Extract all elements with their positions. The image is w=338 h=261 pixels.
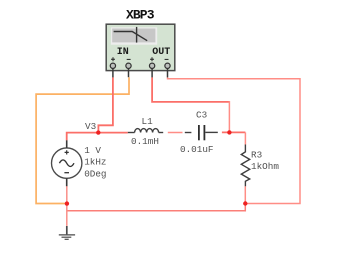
junction bottom right node <box>243 201 247 205</box>
wire orange IN- to ground node <box>36 77 129 203</box>
terminal OUT- <box>165 63 170 68</box>
polarity mark - IN <box>127 58 131 60</box>
svg-text:XBP3: XBP3 <box>126 8 155 23</box>
svg-text:0.1mH: 0.1mH <box>131 136 159 147</box>
polarity mark - OUT <box>165 58 169 60</box>
svg-text:1kOhm: 1kOhm <box>251 161 279 172</box>
capacitor C3 plates <box>199 125 218 140</box>
source V3 bottom pin <box>66 178 68 186</box>
resistor R3 <box>241 145 249 187</box>
inductor L1 <box>128 129 192 133</box>
pin stub IN+ <box>112 69 114 78</box>
XBP3 screen curve <box>114 32 148 41</box>
bode plotter XBP3 body <box>106 24 175 70</box>
XBP3 screen <box>112 29 155 43</box>
XBP3 screen bezel <box>111 27 157 44</box>
pin stub IN- <box>128 69 130 78</box>
wire node V3 horizontal <box>67 133 128 141</box>
terminal OUT+ <box>149 63 154 68</box>
XBP3 screen cursor <box>136 27 138 43</box>
wire between L1 and C3 salmon dash <box>168 132 183 134</box>
svg-text:R3: R3 <box>251 150 262 161</box>
junction node C3-R3 <box>227 130 231 134</box>
wire red IN+ to node V3 <box>98 77 113 132</box>
wire red OUT+ horizontal <box>152 77 229 102</box>
source V3 circle <box>51 148 81 178</box>
polarity mark + OUT <box>150 57 154 61</box>
wire C3 to R3 corner <box>222 131 246 133</box>
svg-text:OUT: OUT <box>152 47 170 58</box>
wire down to R3 top <box>244 132 246 144</box>
svg-text:1 V: 1 V <box>84 145 101 156</box>
source V3 plus mark <box>65 150 69 154</box>
svg-text:L1: L1 <box>142 116 154 127</box>
polarity mark + IN <box>111 57 115 61</box>
source V3 sine <box>59 160 74 167</box>
junction node V3 <box>96 130 100 134</box>
pin stub OUT+ <box>151 69 153 78</box>
svg-text:1kHz: 1kHz <box>84 157 106 168</box>
svg-text:0.01uF: 0.01uF <box>180 144 213 155</box>
source V3 minus mark <box>64 172 69 174</box>
pin stub OUT- <box>167 69 169 78</box>
wire bottom long <box>67 204 246 211</box>
wire salmon down to node C3 <box>228 101 230 132</box>
source V3 top pin <box>66 140 68 148</box>
ground <box>59 226 75 239</box>
junction ground node <box>65 201 69 205</box>
wire R3 bottom to node <box>244 186 246 203</box>
wire salmon OUT- right loop <box>168 77 301 203</box>
terminal IN+ <box>110 63 115 68</box>
terminal IN- <box>126 63 131 68</box>
wire V3 bottom to ground <box>66 186 68 226</box>
svg-text:IN: IN <box>117 47 129 58</box>
svg-text:V3: V3 <box>85 121 96 132</box>
svg-text:C3: C3 <box>196 110 207 121</box>
svg-text:0Deg: 0Deg <box>84 169 106 180</box>
